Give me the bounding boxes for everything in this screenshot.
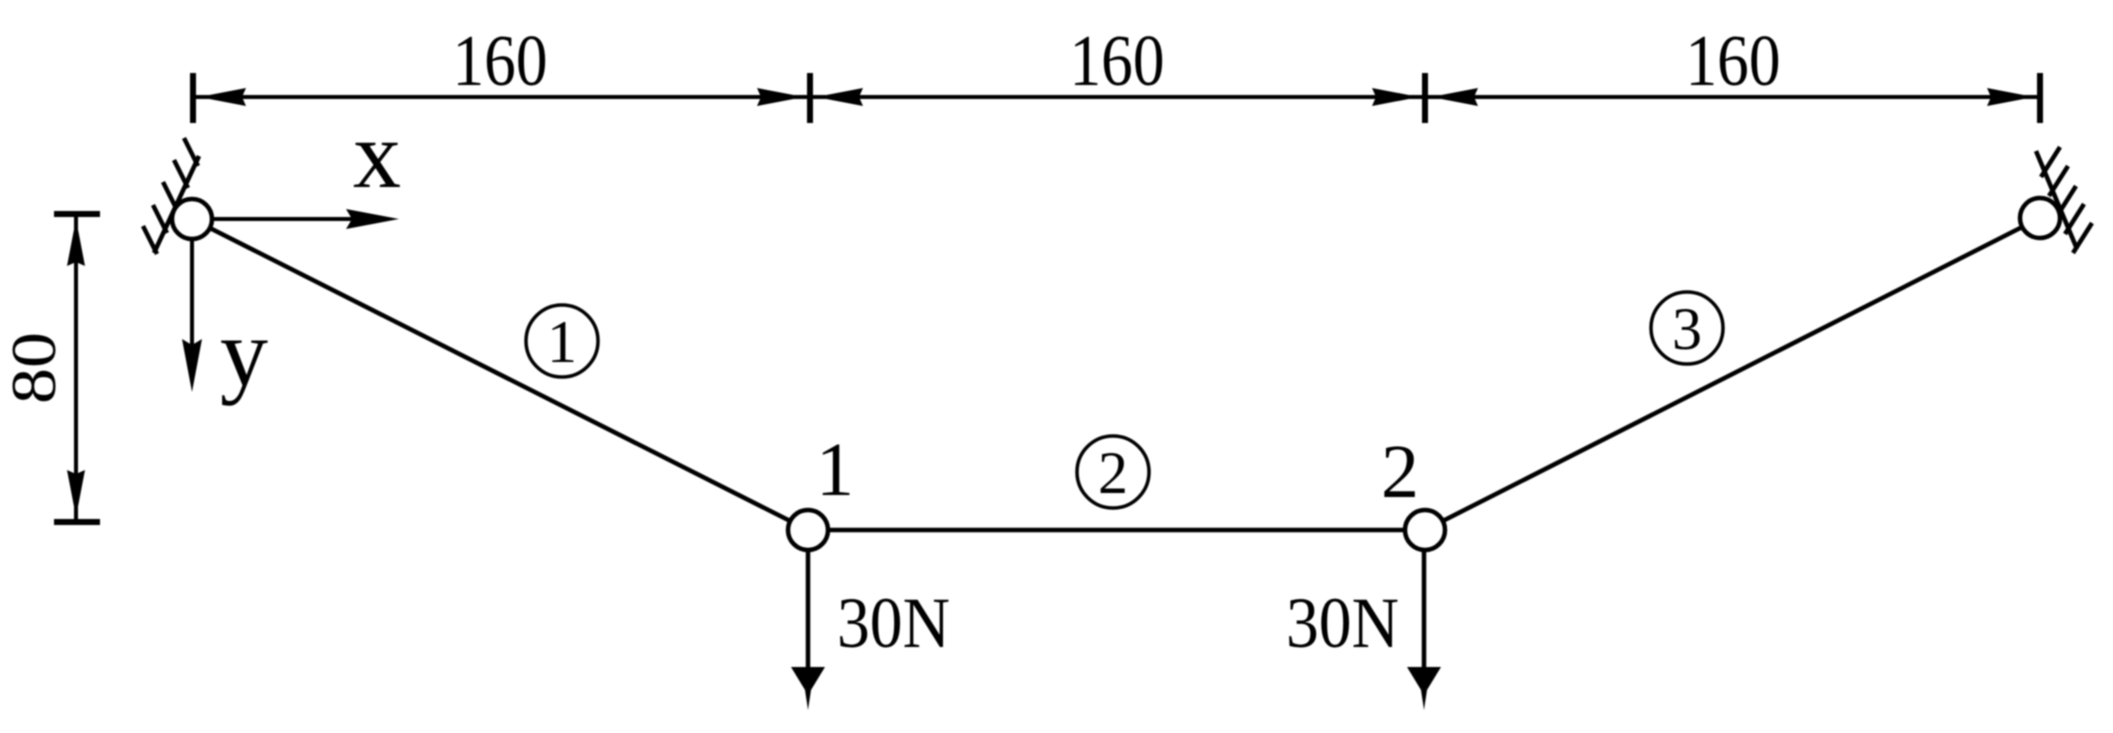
dim arrow seg2 left xyxy=(816,88,863,106)
hatch left 5 xyxy=(184,138,198,166)
member 1 xyxy=(192,219,808,530)
support wall left xyxy=(154,156,199,253)
hatch right 5 xyxy=(2073,223,2092,253)
node 1 joint xyxy=(788,510,828,550)
svg-text:160: 160 xyxy=(453,20,548,101)
hatch left 4 xyxy=(174,160,188,188)
svg-text:30N: 30N xyxy=(1286,583,1399,663)
dim arrow seg2 right xyxy=(1372,88,1419,106)
svg-text:30N: 30N xyxy=(837,583,950,663)
node 2 joint xyxy=(1405,510,1445,550)
dim arrow seg3 left xyxy=(1431,88,1478,106)
member 2 xyxy=(808,528,1425,533)
svg-text:x: x xyxy=(353,101,401,208)
dim arrow seg1 left xyxy=(199,88,246,106)
node tick T5 xyxy=(54,211,100,217)
wire top dimension line xyxy=(193,95,2040,99)
support pin left xyxy=(172,199,212,239)
member label circle 2 xyxy=(1077,436,1149,508)
dim arrow 80 down xyxy=(67,470,85,517)
hatch right 4 xyxy=(2065,204,2084,234)
wire left dimension line xyxy=(74,214,78,522)
svg-text:1: 1 xyxy=(816,428,854,512)
dim arrow 80 up xyxy=(67,219,85,266)
dim arrow seg3 right xyxy=(1987,88,2034,106)
support wall right xyxy=(2036,151,2077,249)
node tick T3 xyxy=(1422,73,1428,123)
node tick T2 xyxy=(807,73,813,123)
svg-text:2: 2 xyxy=(1381,430,1419,514)
svg-text:2: 2 xyxy=(1098,440,1128,506)
node tick T4 xyxy=(2037,73,2043,123)
node tick T6 xyxy=(54,519,100,525)
svg-text:80: 80 xyxy=(0,332,69,404)
force arrow node 1 xyxy=(806,550,811,675)
force arrow node 2 xyxy=(1422,550,1427,675)
y axis arrow xyxy=(190,239,194,345)
member label circle 3 xyxy=(1651,292,1723,364)
hatch left 3 xyxy=(163,182,177,210)
svg-text:3: 3 xyxy=(1672,296,1702,362)
svg-text:160: 160 xyxy=(1686,20,1781,101)
support pin right xyxy=(2020,198,2060,238)
hatch left 1 xyxy=(143,226,157,254)
hatch right 2 xyxy=(2049,166,2068,196)
x axis arrow xyxy=(212,217,355,221)
svg-text:160: 160 xyxy=(1070,20,1165,101)
member label circle 1 xyxy=(526,305,598,377)
hatch left 2 xyxy=(153,205,167,233)
member 3 xyxy=(1425,218,2040,530)
node tick T1 xyxy=(190,73,196,123)
svg-text:1: 1 xyxy=(547,309,577,375)
dim arrow seg1 right xyxy=(757,88,804,106)
svg-text:y: y xyxy=(220,299,268,406)
hatch right 1 xyxy=(2041,147,2060,177)
hatch right 3 xyxy=(2057,186,2076,216)
